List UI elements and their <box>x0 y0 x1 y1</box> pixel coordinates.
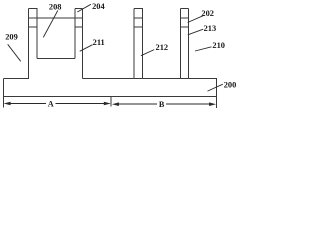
dimension line A with arrowheads <box>4 102 111 106</box>
leader line for label 212 <box>141 50 154 56</box>
fin 212 mask 204 bottom line <box>134 17 142 19</box>
fin 209 inner edge <box>36 8 38 58</box>
fin 211 inner edge <box>74 8 76 58</box>
svg-text:208: 208 <box>49 2 62 11</box>
svg-text:B: B <box>159 100 165 109</box>
svg-text:213: 213 <box>204 24 217 33</box>
svg-text:A: A <box>48 99 54 108</box>
fin 209 mask cap lower line <box>28 26 37 28</box>
leader line for label 210 <box>195 47 212 51</box>
fin 213 mask 202 bottom line <box>180 26 188 28</box>
fin 211 mask cap top <box>75 7 83 9</box>
fin 209 (left fin of region A) outer edge <box>27 8 29 78</box>
fin 213 mask cap top <box>180 7 188 9</box>
substrate 200 right edge / extension line <box>215 78 217 108</box>
fill layer 208 top line across region A <box>28 17 82 19</box>
dimension line B with arrowheads <box>112 102 216 106</box>
svg-text:204: 204 <box>92 2 105 11</box>
leader line for label 208 <box>43 11 58 38</box>
leader line for label 213 <box>188 29 203 35</box>
svg-text:210: 210 <box>212 41 225 50</box>
fin 212 mask cap top <box>134 7 143 9</box>
fin 209 mask cap top <box>28 7 37 9</box>
fin 213 right edge <box>187 8 189 78</box>
fin 212 left edge <box>133 8 135 78</box>
substrate 200 bottom edge <box>3 95 217 97</box>
leader line for label 204 <box>77 4 91 12</box>
fin 211 (right fin of region A) outer edge <box>81 8 83 78</box>
substrate 200 top surface right segment <box>82 77 217 79</box>
svg-text:200: 200 <box>224 81 237 90</box>
leader line for label 200 <box>208 84 223 91</box>
leader line for label 209 <box>8 44 21 61</box>
svg-text:209: 209 <box>5 32 18 41</box>
leader line for label 202 <box>188 15 205 22</box>
substrate 200 left edge / extension line <box>2 78 4 107</box>
trench floor between fins of region A <box>37 57 75 59</box>
fin 212 mask 202 bottom line <box>134 26 142 28</box>
fin 211 mask cap lower line <box>75 26 82 28</box>
fin 213 mask 204 bottom line <box>180 17 188 19</box>
fin 213 left edge <box>179 8 181 78</box>
svg-text:211: 211 <box>93 38 105 47</box>
leader line for label 211 <box>80 45 93 52</box>
svg-text:212: 212 <box>156 43 169 52</box>
fin 212 right edge <box>142 8 144 78</box>
divider extension line between dimension A and B <box>110 96 112 106</box>
svg-text:202: 202 <box>201 9 214 18</box>
substrate 200 top surface left segment <box>3 77 29 79</box>
